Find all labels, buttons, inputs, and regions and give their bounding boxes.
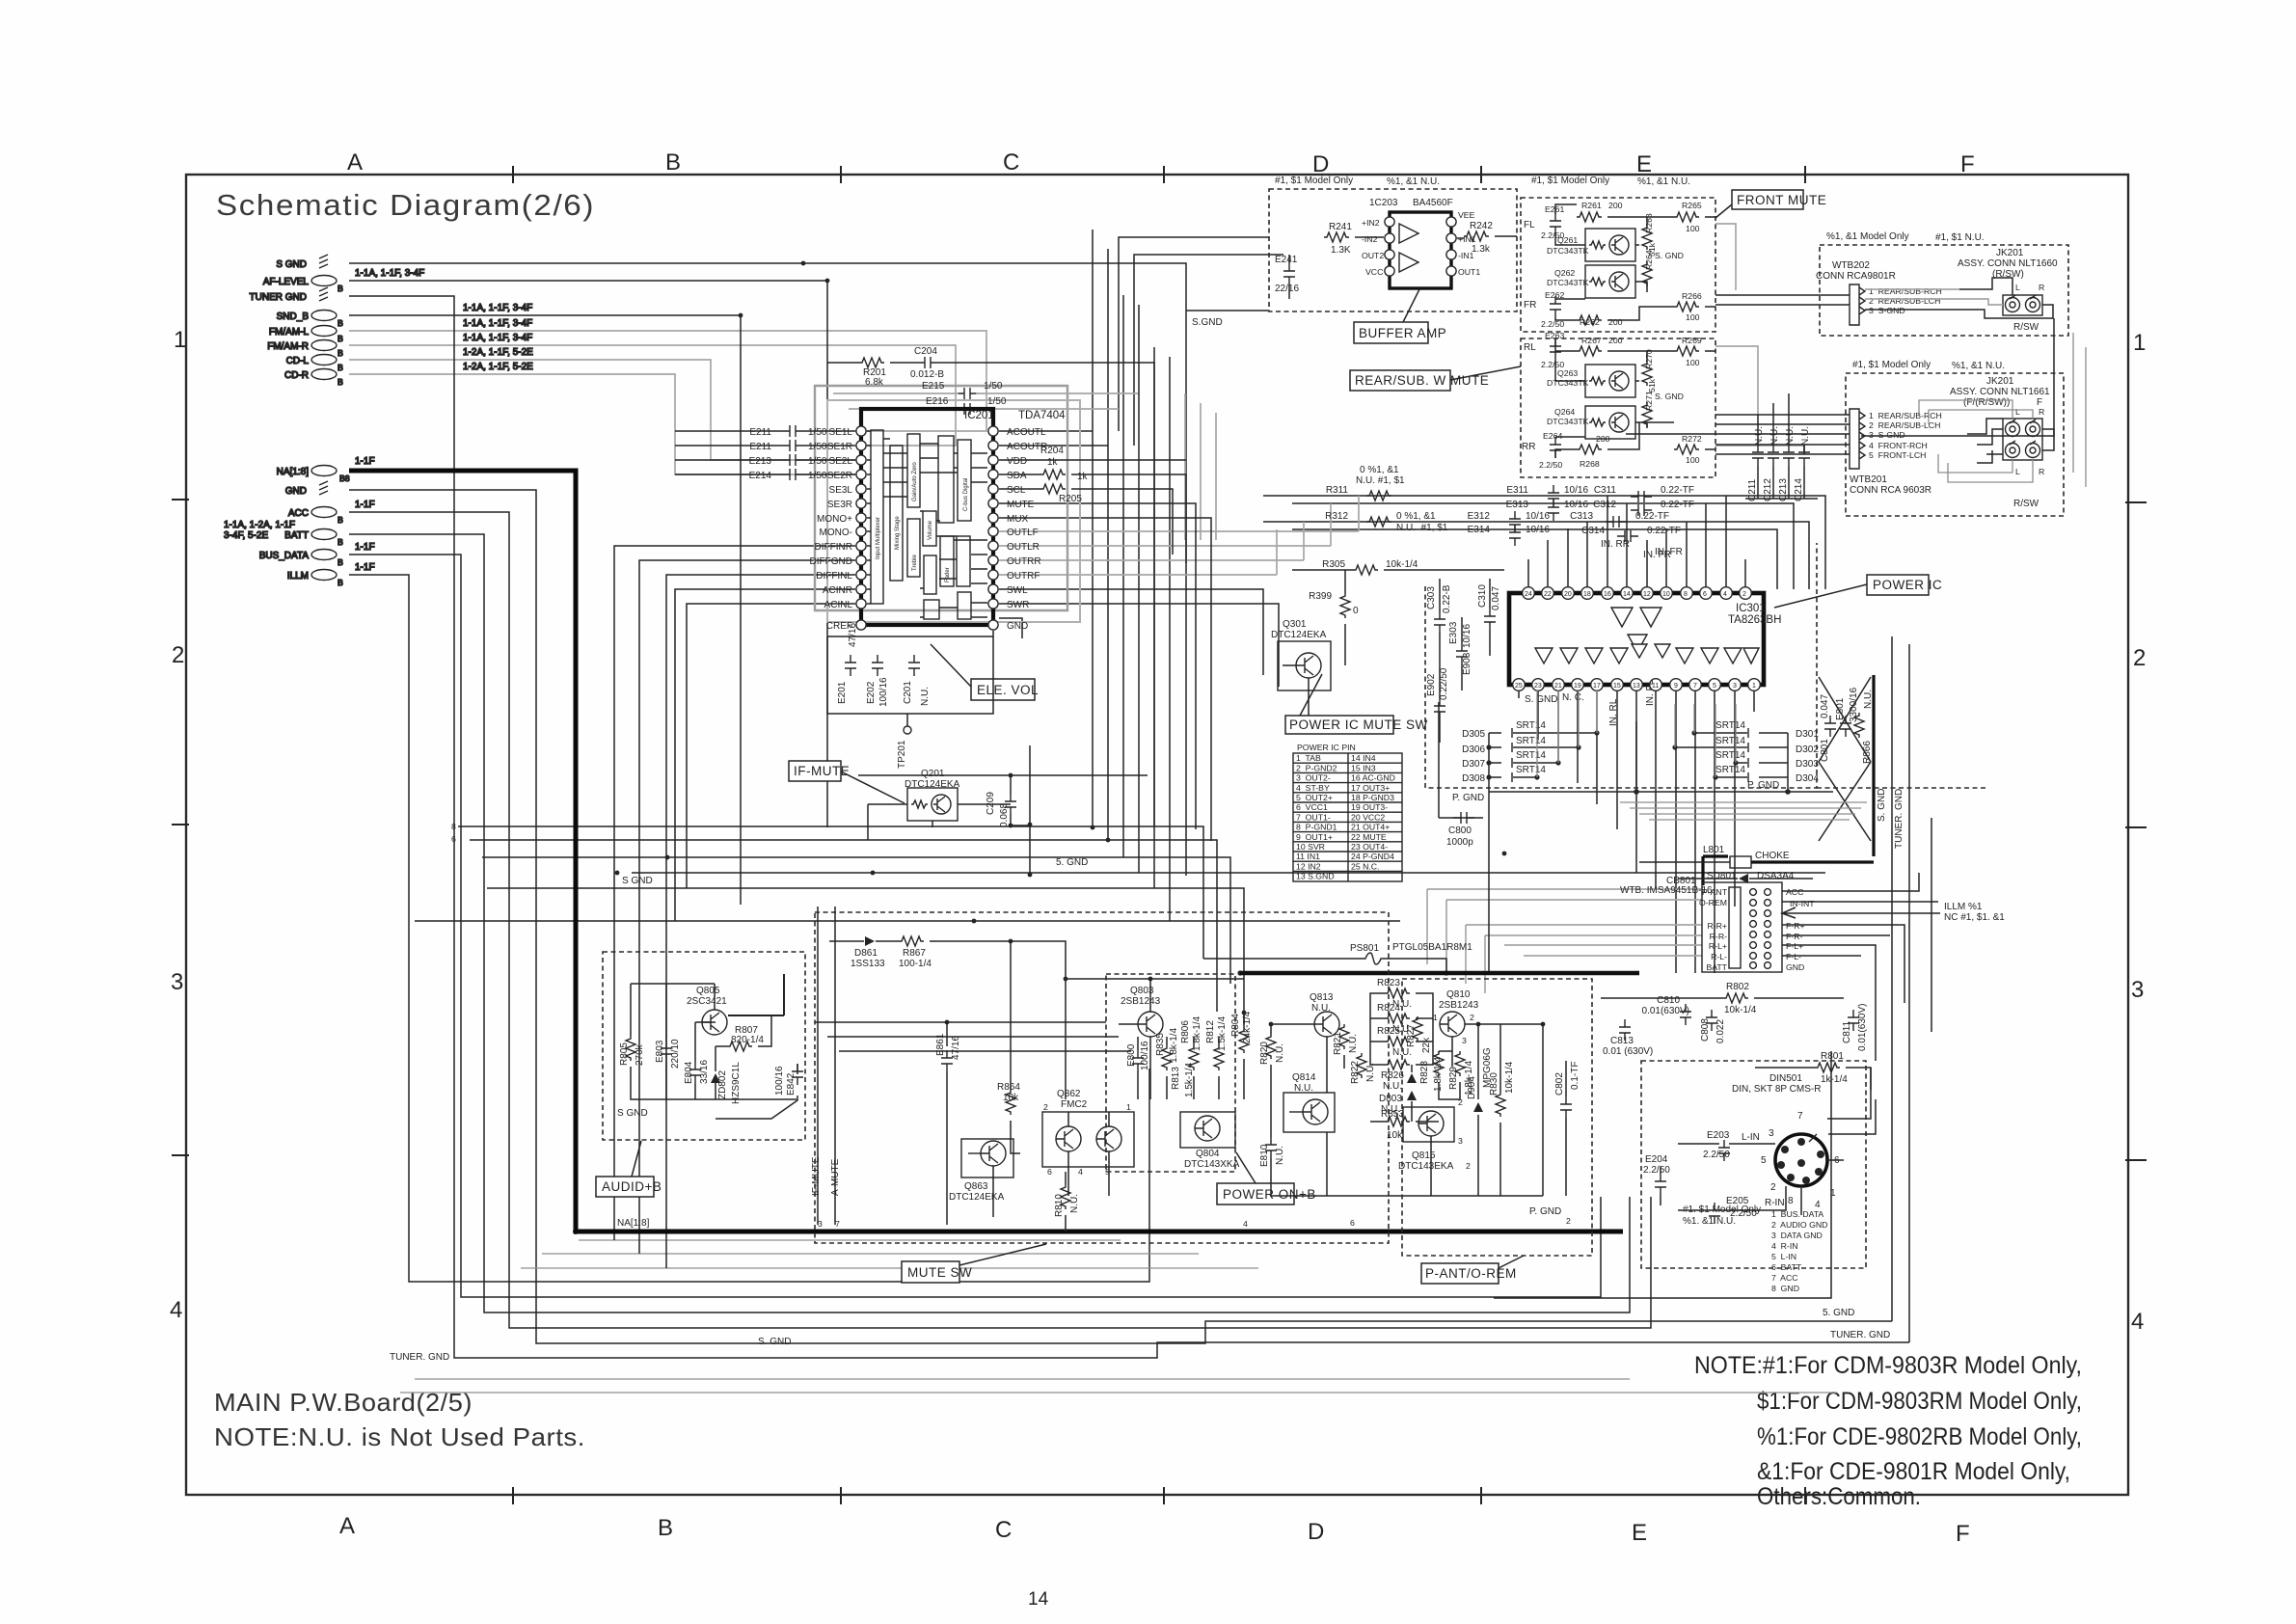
svg-text:14 IN4: 14 IN4 xyxy=(1351,753,1376,763)
wire: rear mute outputs to WTB201 xyxy=(1626,415,1850,454)
svg-text:POWER IC PIN: POWER IC PIN xyxy=(1297,743,1356,752)
svg-text:FL: FL xyxy=(1524,220,1535,230)
svg-text:10/16: 10/16 xyxy=(1564,485,1588,496)
svg-text:1/50: 1/50 xyxy=(987,396,1007,407)
svg-text:10k-1/4: 10k-1/4 xyxy=(1724,1005,1757,1015)
svg-text:3: 3 xyxy=(171,969,183,995)
svg-text:Mixing Stage: Mixing Stage xyxy=(895,516,901,550)
svg-text:NOTE:N.U. is Not Used Parts.: NOTE:N.U. is Not Used Parts. xyxy=(214,1422,585,1451)
svg-text:B: B xyxy=(338,578,343,587)
svg-text:DIN, SKT 8P CMS-R: DIN, SKT 8P CMS-R xyxy=(1732,1084,1821,1095)
svg-text:1-2A, 1-1F, 5-2E: 1-2A, 1-1F, 5-2E xyxy=(463,347,533,358)
svg-text:FM/AM-R: FM/AM-R xyxy=(267,341,309,352)
IC201 right pins xyxy=(988,426,998,630)
svg-text:E902: E902 xyxy=(1426,673,1437,696)
svg-text:11 IN1: 11 IN1 xyxy=(1296,852,1320,861)
svg-text:6 VCC1: 6 VCC1 xyxy=(1296,802,1328,812)
svg-text:10k-1/4: 10k-1/4 xyxy=(1504,1061,1515,1094)
svg-text:HZS9C1L: HZS9C1L xyxy=(731,1062,742,1104)
svg-text:POWER ON+B: POWER ON+B xyxy=(1223,1187,1316,1202)
svg-text:4 FRONT-RCH: 4 FRONT-RCH xyxy=(1869,441,1928,450)
FRONT MUTE dashed box xyxy=(1521,198,1715,332)
node ILLM stub xyxy=(311,570,337,581)
svg-text:FRONT MUTE: FRONT MUTE xyxy=(1737,193,1826,207)
svg-text:C312: C312 xyxy=(1593,500,1616,510)
svg-text:WTB201: WTB201 xyxy=(1850,474,1887,485)
svg-text:R812: R812 xyxy=(1205,1020,1216,1043)
svg-text:E842: E842 xyxy=(786,1072,797,1096)
resistor R242 xyxy=(1464,231,1489,241)
svg-text:VDD: VDD xyxy=(1007,456,1027,467)
svg-text:SRT14: SRT14 xyxy=(1715,765,1745,775)
svg-text:R267: R267 xyxy=(1581,336,1602,345)
svg-text:E810: E810 xyxy=(1259,1144,1270,1167)
svg-text:5 OUT2+: 5 OUT2+ xyxy=(1296,793,1333,802)
IC201 inner block names xyxy=(876,462,969,582)
svg-text:0: 0 xyxy=(1353,606,1359,616)
resistor R399 xyxy=(1340,593,1350,618)
svg-text:0.022: 0.022 xyxy=(1715,1019,1726,1043)
svg-text:%1, &1 Model Only: %1, &1 Model Only xyxy=(1826,231,1909,242)
svg-text:OUT2: OUT2 xyxy=(1362,251,1384,260)
svg-text:25 N.C.: 25 N.C. xyxy=(1351,861,1379,871)
svg-text:L: L xyxy=(2015,283,2020,292)
svg-text:4 R-IN: 4 R-IN xyxy=(1771,1241,1798,1251)
IC201 main box xyxy=(861,409,993,625)
svg-text:B: B xyxy=(338,363,343,372)
svg-text:POWER IC: POWER IC xyxy=(1873,578,1942,592)
node ACC stub xyxy=(311,507,337,518)
IC301 bottom pins xyxy=(1513,679,1761,691)
svg-text:MUTE SW: MUTE SW xyxy=(907,1265,972,1280)
svg-text:Q863: Q863 xyxy=(964,1181,988,1192)
svg-text:22 MUTE: 22 MUTE xyxy=(1351,832,1387,842)
svg-text:2: 2 xyxy=(172,642,184,668)
svg-text:E203: E203 xyxy=(1707,1130,1730,1141)
svg-text:21: 21 xyxy=(1554,683,1562,690)
node AF-LEVEL stub xyxy=(311,276,337,286)
page frame xyxy=(186,175,2128,1495)
svg-text:3: 3 xyxy=(1462,1036,1467,1045)
svg-text:100: 100 xyxy=(1686,224,1700,233)
svg-text:#1, $1 Model Only: #1, $1 Model Only xyxy=(1852,360,1931,370)
grid letters top xyxy=(347,149,1975,177)
wire: bottom mid rails xyxy=(815,1022,1131,1051)
diode D803 xyxy=(1407,1073,1417,1100)
svg-text:R270: R270 xyxy=(1644,349,1654,369)
P-ANT/O-REM dashed box xyxy=(1402,979,1592,1256)
svg-text:R-IN: R-IN xyxy=(1765,1198,1785,1208)
thick bus P.GND rail xyxy=(1240,971,1639,976)
wire: GND run xyxy=(349,490,1892,1343)
svg-text:E263: E263 xyxy=(1545,331,1564,340)
svg-text:B: B xyxy=(338,318,343,328)
svg-text:2 AUDIO GND: 2 AUDIO GND xyxy=(1771,1220,1827,1230)
svg-text:N. C.: N. C. xyxy=(1562,692,1584,703)
svg-text:B: B xyxy=(338,284,343,293)
svg-text:10k: 10k xyxy=(1003,1093,1019,1103)
svg-text:%1. &1 N.U.: %1. &1 N.U. xyxy=(1683,1216,1736,1227)
wire: CD-R run xyxy=(349,374,861,474)
svg-text:N.U.: N.U. xyxy=(1785,426,1796,446)
svg-text:1000p: 1000p xyxy=(1446,837,1473,848)
capacitor C800 xyxy=(1453,812,1474,824)
svg-text:GND: GND xyxy=(285,486,307,497)
label box MUTE SW xyxy=(902,1261,959,1283)
svg-text:SE1L: SE1L xyxy=(829,427,853,438)
svg-text:R-R+: R-R+ xyxy=(1707,921,1727,931)
vertical gnd labels xyxy=(1877,789,1904,849)
label box P-ANT/O-REM xyxy=(1421,1263,1499,1284)
svg-text:SDA: SDA xyxy=(1007,471,1027,481)
capacitor C813 xyxy=(1619,1019,1631,1041)
svg-text:C802: C802 xyxy=(1554,1072,1565,1096)
svg-text:N.U.: N.U. xyxy=(1754,426,1765,446)
wire: mid S GND rails xyxy=(415,745,1825,1024)
svg-text:1 BUS. DATA: 1 BUS. DATA xyxy=(1771,1209,1823,1219)
svg-text:R: R xyxy=(2039,283,2044,292)
svg-text:7 OUT1-: 7 OUT1- xyxy=(1296,812,1331,822)
test point TP201 xyxy=(904,726,911,734)
svg-text:4: 4 xyxy=(1243,1219,1248,1229)
svg-text:2: 2 xyxy=(1043,1102,1048,1112)
svg-text:1-1A, 1-2A, 1-1F: 1-1A, 1-2A, 1-1F xyxy=(224,520,295,530)
diode D904 xyxy=(1473,1102,1483,1112)
svg-text:TUNER. GND: TUNER. GND xyxy=(1894,789,1904,849)
capacitor C810 xyxy=(1680,1004,1691,1025)
diode SD801 xyxy=(1739,874,1748,883)
svg-text:R828: R828 xyxy=(1419,1061,1430,1084)
svg-text:47/16: 47/16 xyxy=(848,623,858,647)
svg-text:S GND: S GND xyxy=(617,1108,648,1119)
svg-text:D861: D861 xyxy=(854,948,878,959)
wire: front mute to JK xyxy=(1715,295,1850,305)
grid ticks sides xyxy=(172,500,2147,1160)
node SND_B stub xyxy=(311,311,337,321)
svg-text:R813: R813 xyxy=(1171,1067,1181,1090)
svg-text:2: 2 xyxy=(1466,1161,1471,1171)
svg-text:10 SVR: 10 SVR xyxy=(1296,842,1325,852)
label box POWER IC MUTE SW xyxy=(1285,716,1393,734)
svg-text:NOTE:#1:For CDM-9803R Model On: NOTE:#1:For CDM-9803R Model Only, xyxy=(1694,1352,2082,1379)
wire: BATT run xyxy=(349,534,1630,1313)
svg-text:3: 3 xyxy=(1458,1136,1463,1146)
svg-text:E903: E903 xyxy=(1462,652,1472,675)
svg-text:C801: C801 xyxy=(1820,739,1830,762)
label box REAR/SUB. W MUTE xyxy=(1350,370,1450,391)
svg-text:MUTE: MUTE xyxy=(1007,500,1035,510)
svg-text:R271: R271 xyxy=(1644,391,1654,411)
node FM/AM-R stub xyxy=(311,340,337,351)
svg-text:A: A xyxy=(339,1513,355,1539)
svg-text:9 OUT1+: 9 OUT1+ xyxy=(1296,832,1333,842)
svg-text:23 OUT4-: 23 OUT4- xyxy=(1351,842,1388,852)
svg-text:SE3R: SE3R xyxy=(827,500,852,510)
svg-text:100-1/4: 100-1/4 xyxy=(899,959,932,969)
svg-text:C-bus Digital: C-bus Digital xyxy=(963,478,969,511)
svg-text:F-L+: F-L+ xyxy=(1786,941,1803,951)
zener ZD802 xyxy=(711,1073,720,1083)
svg-text:10k: 10k xyxy=(1387,1130,1403,1141)
svg-text:R826: R826 xyxy=(1381,1070,1404,1081)
svg-text:1k: 1k xyxy=(1047,457,1059,468)
svg-text:AF-LEVEL: AF-LEVEL xyxy=(263,277,310,287)
svg-text:5: 5 xyxy=(1713,683,1716,690)
svg-text:SRT14: SRT14 xyxy=(1516,750,1546,761)
svg-text:2SB1243: 2SB1243 xyxy=(1121,996,1161,1007)
svg-text:2.2/50: 2.2/50 xyxy=(1539,460,1562,470)
svg-text:R: R xyxy=(2039,407,2044,417)
svg-text:JK201: JK201 xyxy=(1996,248,2024,258)
svg-text:R311: R311 xyxy=(1326,485,1349,496)
svg-text:C: C xyxy=(1003,149,1019,176)
svg-text:4: 4 xyxy=(2131,1309,2144,1335)
svg-text:SD801: SD801 xyxy=(1707,871,1737,881)
svg-text:E803: E803 xyxy=(655,1040,665,1063)
svg-text:E313: E313 xyxy=(1506,500,1529,510)
DIN dashed box xyxy=(1641,1061,1866,1268)
svg-text:R204: R204 xyxy=(1040,446,1064,456)
svg-text:R269: R269 xyxy=(1682,336,1702,345)
svg-text:Q814: Q814 xyxy=(1292,1072,1316,1083)
svg-text:ASSY. CONN NLT1661: ASSY. CONN NLT1661 xyxy=(1950,387,2050,397)
svg-text:FR: FR xyxy=(1524,300,1536,311)
svg-text:DTC124EKA: DTC124EKA xyxy=(949,1192,1005,1203)
svg-text:FM/AM-L: FM/AM-L xyxy=(269,327,310,338)
wire IF-MUTE/A-MUTE verticals xyxy=(818,907,835,1225)
svg-text:200: 200 xyxy=(1608,336,1623,345)
grid letters bottom xyxy=(339,1513,1970,1547)
svg-text:7: 7 xyxy=(1797,1111,1803,1122)
svg-text:0 %1, &1: 0 %1, &1 xyxy=(1360,465,1399,475)
svg-text:D308: D308 xyxy=(1462,773,1485,784)
svg-text:1-1A, 1-1F, 3-4F: 1-1A, 1-1F, 3-4F xyxy=(463,333,532,343)
wire: ACC run xyxy=(349,512,1651,1328)
DIN outer solid border xyxy=(1494,1051,1831,1298)
svg-text:R-R-: R-R- xyxy=(1710,932,1727,941)
svg-text:100: 100 xyxy=(1686,455,1700,465)
svg-text:C: C xyxy=(995,1517,1012,1543)
svg-text:WTB. IMSA9451B-16: WTB. IMSA9451B-16 xyxy=(1620,885,1713,896)
svg-text:C810: C810 xyxy=(1657,995,1680,1006)
svg-text:9: 9 xyxy=(1674,683,1678,690)
wire: power top verticals xyxy=(1528,496,1745,589)
capacitor E842 xyxy=(792,1064,803,1085)
svg-text:A-MUTE: A-MUTE xyxy=(830,1158,841,1196)
svg-text:1: 1 xyxy=(1394,1111,1399,1121)
svg-text:ACC: ACC xyxy=(288,508,309,519)
svg-text:Q301: Q301 xyxy=(1283,619,1307,630)
node TUNER GND stub xyxy=(319,287,328,301)
wire: nest extra rails xyxy=(400,1240,1837,1393)
svg-text:0.01 (630V): 0.01 (630V) xyxy=(1603,1046,1653,1057)
svg-text:R822: R822 xyxy=(1350,1061,1361,1084)
svg-text:A: A xyxy=(347,149,363,176)
svg-text:C303: C303 xyxy=(1426,586,1437,609)
svg-text:E241: E241 xyxy=(1275,255,1298,265)
svg-text:0.01(630V): 0.01(630V) xyxy=(1642,1006,1689,1016)
svg-text:6: 6 xyxy=(451,834,456,844)
svg-text:1 TAB: 1 TAB xyxy=(1296,753,1321,763)
svg-text:10/16: 10/16 xyxy=(1564,500,1588,510)
svg-text:ILLM: ILLM xyxy=(287,571,309,582)
svg-text:R312: R312 xyxy=(1325,511,1348,522)
svg-text:R241: R241 xyxy=(1329,222,1352,232)
wire: right power risers xyxy=(1892,636,1909,1342)
svg-text:0.1-TF: 0.1-TF xyxy=(1570,1062,1580,1090)
svg-text:S. GND: S. GND xyxy=(1877,789,1887,822)
wire: power bottom verticals xyxy=(1519,690,1754,973)
svg-text:C209: C209 xyxy=(986,792,996,815)
svg-text:IN. RL: IN. RL xyxy=(1608,698,1619,726)
wire: FM/AM-R run xyxy=(349,345,956,446)
JK201 upper dashed box xyxy=(1820,245,2068,336)
capacitor C811 xyxy=(1848,1010,1859,1031)
svg-text:S.GND: S.GND xyxy=(1192,317,1223,328)
svg-text:P-ANT/O-REM: P-ANT/O-REM xyxy=(1425,1266,1517,1281)
svg-text:820-1/4: 820-1/4 xyxy=(731,1035,764,1045)
wire: X crossings near C801 xyxy=(1819,677,1871,841)
svg-text:CD-L: CD-L xyxy=(286,356,310,366)
svg-text:200: 200 xyxy=(1596,434,1610,444)
svg-text:BUFFER AMP: BUFFER AMP xyxy=(1359,326,1446,340)
svg-text:22: 22 xyxy=(1544,591,1552,598)
buffer amp dashed box xyxy=(1269,189,1517,311)
svg-text:270k: 270k xyxy=(635,1043,645,1066)
vertical labels IF-MUTE A-MUTE xyxy=(811,1156,841,1196)
svg-text:0.047: 0.047 xyxy=(1491,586,1501,610)
svg-text:12 IN2: 12 IN2 xyxy=(1296,861,1321,871)
svg-text:SND_B: SND_B xyxy=(277,311,310,322)
svg-text:16: 16 xyxy=(1604,591,1611,598)
svg-text:B8: B8 xyxy=(339,474,350,483)
svg-text:N.U. #1, $1: N.U. #1, $1 xyxy=(1356,475,1405,486)
svg-text:2SC3421: 2SC3421 xyxy=(687,996,727,1007)
svg-text:SE1R: SE1R xyxy=(827,442,852,452)
svg-text:CONN RCA 9603R: CONN RCA 9603R xyxy=(1850,485,1931,496)
transistor Q264 xyxy=(1585,406,1635,439)
svg-text:0.22-TF: 0.22-TF xyxy=(1635,511,1669,522)
diode group D301-D304 xyxy=(1796,729,1819,784)
svg-text:1k: 1k xyxy=(1077,472,1089,482)
svg-text:N.U.: N.U. xyxy=(1365,1063,1376,1082)
svg-text:SE2L: SE2L xyxy=(829,456,853,467)
node S GND stub xyxy=(319,255,328,268)
svg-text:Schematic Diagram(2/6): Schematic Diagram(2/6) xyxy=(216,188,595,222)
svg-text:F-R-: F-R- xyxy=(1786,932,1802,941)
svg-text:S. GND: S. GND xyxy=(1655,251,1684,260)
svg-text:17 OUT3+: 17 OUT3+ xyxy=(1351,783,1390,793)
wire: IC201 outputs right xyxy=(999,531,1359,575)
svg-text:IN-INT: IN-INT xyxy=(1790,899,1815,908)
svg-text:5: 5 xyxy=(1761,1155,1767,1166)
svg-text:14: 14 xyxy=(1623,591,1631,598)
svg-text:S. GND: S. GND xyxy=(1525,694,1557,705)
svg-text:0 %1, &1: 0 %1, &1 xyxy=(1396,511,1436,522)
svg-text:20: 20 xyxy=(1564,591,1572,598)
svg-text:OUTRF: OUTRF xyxy=(1007,571,1040,582)
svg-text:N.U.: N.U. xyxy=(1769,426,1780,446)
svg-text:5 FRONT-LCH: 5 FRONT-LCH xyxy=(1869,450,1926,460)
svg-text:CHOKE: CHOKE xyxy=(1755,851,1790,861)
svg-text:0.012-B: 0.012-B xyxy=(910,369,944,380)
svg-text:1-1F: 1-1F xyxy=(355,500,375,510)
svg-text:47/16: 47/16 xyxy=(951,1036,961,1060)
svg-text:6: 6 xyxy=(1350,1218,1355,1228)
svg-text:8 GND: 8 GND xyxy=(1771,1284,1799,1293)
capacitor C808 xyxy=(1706,1010,1717,1031)
wire: ACIN rows left xyxy=(675,589,855,921)
capacitor group E201 E202 C201 xyxy=(827,636,993,714)
svg-text:BATT: BATT xyxy=(1706,962,1727,972)
svg-text:R265: R265 xyxy=(1682,201,1702,210)
resistor R805 xyxy=(626,1036,635,1061)
capacitor column C801 E801 R866 xyxy=(1824,713,1864,738)
resistor R205 xyxy=(1040,484,1066,494)
E211 E212 E213 E214 rows xyxy=(749,427,772,481)
svg-text:DTC343TK: DTC343TK xyxy=(1547,278,1589,287)
svg-text:1/50: 1/50 xyxy=(984,381,1003,392)
svg-text:IC301: IC301 xyxy=(1736,603,1766,614)
svg-text:VEE: VEE xyxy=(1458,210,1475,220)
node BATT stub xyxy=(311,529,337,540)
svg-text:6.8k: 6.8k xyxy=(865,377,884,388)
svg-text:TP201: TP201 xyxy=(897,740,907,769)
svg-text:R806: R806 xyxy=(1180,1020,1191,1043)
svg-text:4: 4 xyxy=(1078,1167,1083,1177)
wire: ILLM run xyxy=(349,575,1149,1282)
svg-text:D803: D803 xyxy=(1379,1094,1402,1104)
svg-text:1-2A, 1-1F, 5-2E: 1-2A, 1-1F, 5-2E xyxy=(463,362,533,372)
svg-text:%1, &1 N.U.: %1, &1 N.U. xyxy=(1952,361,2005,371)
svg-text:1.3K: 1.3K xyxy=(1331,245,1351,256)
svg-text:2.2/50: 2.2/50 xyxy=(1643,1165,1670,1176)
svg-text:D305: D305 xyxy=(1462,729,1485,740)
node BUS_DATA stub xyxy=(311,550,337,560)
SEC_WIRES2 xyxy=(224,255,533,587)
svg-text:7: 7 xyxy=(835,1219,840,1229)
svg-text:B: B xyxy=(338,377,343,387)
svg-text:1.8k-1/4: 1.8k-1/4 xyxy=(1169,1027,1179,1063)
svg-text:R853: R853 xyxy=(1381,1109,1404,1120)
svg-text:3 S-GND: 3 S-GND xyxy=(1869,430,1905,440)
svg-text:20 VCC2: 20 VCC2 xyxy=(1351,812,1385,822)
svg-text:IF-MUTE: IF-MUTE xyxy=(811,1156,822,1196)
model note block xyxy=(1694,1352,2082,1510)
svg-text:%1:For CDE-9802RB Model Only,: %1:For CDE-9802RB Model Only, xyxy=(1757,1423,2082,1450)
svg-text:3300/16: 3300/16 xyxy=(1849,687,1859,722)
svg-text:D304: D304 xyxy=(1796,773,1819,784)
node FM/AM-L stub xyxy=(311,326,337,337)
transistor Q815 xyxy=(1403,1107,1454,1142)
svg-text:C808: C808 xyxy=(1700,1018,1711,1042)
svg-text:SRT14: SRT14 xyxy=(1516,765,1546,775)
resistor R822 xyxy=(1357,1053,1366,1078)
svg-text:SRT14: SRT14 xyxy=(1516,736,1546,746)
svg-text:N.U.: N.U. xyxy=(1275,1146,1285,1165)
svg-text:R-L-: R-L- xyxy=(1711,952,1727,961)
resistor column R806 R812 R804 E800 R835 R813 xyxy=(1126,1011,1253,1097)
svg-text:0.22-TF: 0.22-TF xyxy=(1661,500,1694,510)
svg-text:2: 2 xyxy=(1742,591,1746,598)
resistor R807 xyxy=(727,1042,752,1051)
svg-text:Q810: Q810 xyxy=(1446,989,1471,1000)
svg-text:R272: R272 xyxy=(1682,434,1702,444)
svg-text:F-L-: F-L- xyxy=(1786,952,1801,961)
wire: FM/AM-L run xyxy=(349,331,986,431)
svg-text:POWER IC MUTE SW: POWER IC MUTE SW xyxy=(1289,717,1428,732)
label box POWER IC xyxy=(1867,575,1929,595)
